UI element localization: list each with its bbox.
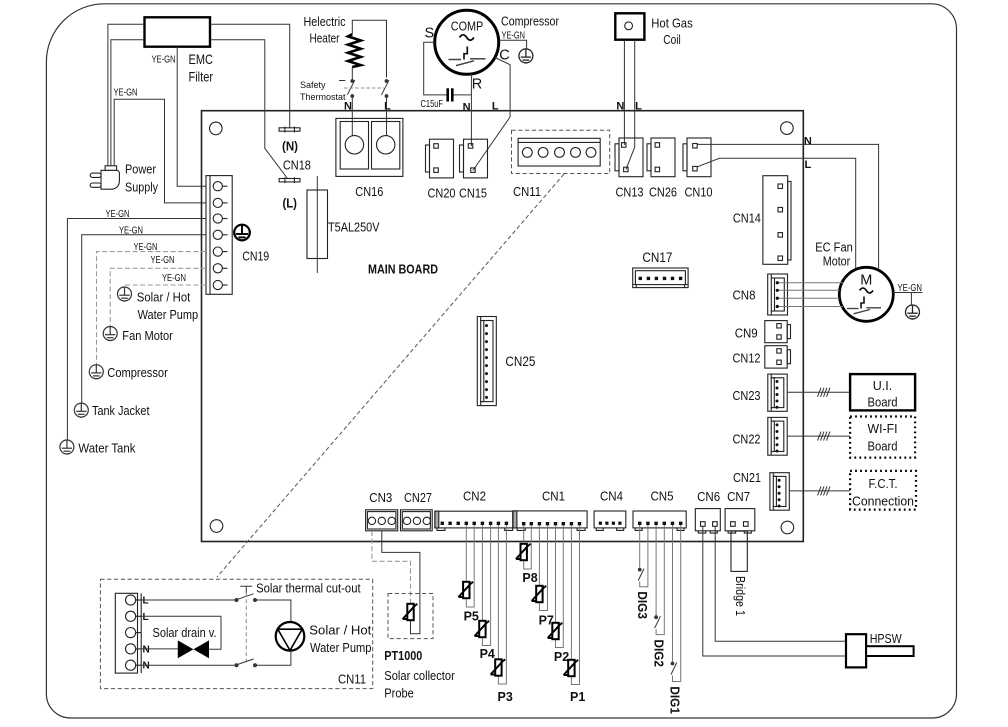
CN22 connector xyxy=(768,417,787,455)
CN9 connector xyxy=(765,321,791,343)
wire CN19 pin4 to Tank Jacket earth xyxy=(82,235,206,403)
thermistor probe P1 wires xyxy=(571,525,579,685)
heater element coil xyxy=(348,34,361,67)
svg-text:YE-GN: YE-GN xyxy=(502,30,526,41)
thermistor probe P2 wires xyxy=(556,525,564,648)
svg-text:Water Pump: Water Pump xyxy=(138,308,199,322)
CN19 connector xyxy=(206,176,232,295)
svg-text:YE-GN: YE-GN xyxy=(119,225,143,236)
solar pump circle xyxy=(276,622,305,651)
capacitor C15uF xyxy=(446,88,449,101)
svg-text:CN10: CN10 xyxy=(685,186,713,200)
mounting hole top-left xyxy=(210,122,223,135)
svg-text:Coil: Coil xyxy=(663,33,681,47)
svg-text:Solar / Hot: Solar / Hot xyxy=(309,624,372,638)
svg-text:CN20: CN20 xyxy=(428,187,456,201)
wire plug earth core to CN19 pin2 xyxy=(114,99,206,203)
svg-text:CN16: CN16 xyxy=(355,185,383,199)
svg-text:P8: P8 xyxy=(522,571,537,585)
svg-text:R: R xyxy=(472,76,482,92)
svg-text:EMC: EMC xyxy=(189,51,214,67)
svg-text:CN22: CN22 xyxy=(733,433,761,447)
svg-text:DIG1: DIG1 xyxy=(668,686,682,714)
svg-text:U.I.: U.I. xyxy=(873,379,892,393)
CN8 connector xyxy=(768,274,788,315)
Hot Gas Coil box xyxy=(615,13,644,39)
svg-text:S: S xyxy=(424,26,434,42)
DIG2 switch wires xyxy=(656,525,664,635)
thermistor P3 xyxy=(491,659,506,675)
solar box terminal connector xyxy=(115,593,141,673)
wire CN6 right pin to HPSW xyxy=(715,527,846,642)
wire CN19 pin5 to Compressor earth (dashed) xyxy=(97,252,207,365)
svg-text:CN17: CN17 xyxy=(642,250,672,265)
solar lower switch xyxy=(235,659,257,667)
wire lower switch to pump bottom xyxy=(257,651,291,666)
CN6 connector xyxy=(695,509,720,533)
CN14 connector xyxy=(763,176,791,265)
wire plug core 2 to EMC xyxy=(111,40,145,166)
thermistor P2 xyxy=(548,623,563,639)
wire hot gas L to CN13 xyxy=(626,40,635,170)
svg-text:Thermostat: Thermostat xyxy=(300,92,346,102)
wire C to CN15 pin L xyxy=(473,58,510,171)
svg-text:F.C.T.: F.C.T. xyxy=(869,477,898,491)
main board outline xyxy=(202,111,804,542)
svg-text:WI-FI: WI-FI xyxy=(868,422,898,436)
solar box dashed outline xyxy=(100,579,372,688)
svg-text:N: N xyxy=(143,644,150,655)
svg-text:CN18: CN18 xyxy=(283,159,311,173)
thermistor probe P3 wires xyxy=(498,525,506,684)
svg-text:YE-GN: YE-GN xyxy=(152,55,176,66)
wire solar pin1 to cutout switch xyxy=(141,599,235,601)
fuse T5AL250V xyxy=(316,176,318,273)
DIG2 switch xyxy=(655,616,661,628)
wire compressor body to earth xyxy=(499,40,527,49)
svg-text:CN25: CN25 xyxy=(505,354,535,369)
safety thermostat switch L xyxy=(382,80,390,98)
CN20 connector xyxy=(426,139,454,178)
svg-text:EC Fan: EC Fan xyxy=(815,241,853,255)
DIG1 switch xyxy=(671,662,677,674)
svg-text:N: N xyxy=(616,101,624,113)
svg-text:Board: Board xyxy=(868,440,898,454)
svg-text:Bridge 1: Bridge 1 xyxy=(733,576,747,616)
CN10 connector xyxy=(683,138,711,177)
DIG1 switch wires xyxy=(673,525,681,682)
wire heater top loop xyxy=(352,20,386,77)
svg-text:Heater: Heater xyxy=(310,32,340,46)
wire CN10 L to EC fan motor xyxy=(697,158,856,269)
svg-text:(L): (L) xyxy=(282,196,297,211)
wires CN8 to motor xyxy=(779,283,843,307)
svg-text:DIG3: DIG3 xyxy=(635,591,649,619)
compressor COMP circle xyxy=(435,10,499,74)
power supply plug xyxy=(90,166,119,189)
mounting hole top-right xyxy=(781,122,794,135)
earth Tank Jacket xyxy=(74,403,88,417)
CN17 connector xyxy=(633,268,688,288)
CN11 connector dashed box xyxy=(512,130,610,173)
wire EMC right to CN18 (N) xyxy=(210,24,290,128)
wire solar pin5 to lower switch xyxy=(141,664,235,666)
svg-text:N: N xyxy=(804,135,812,147)
svg-text:Probe: Probe xyxy=(384,687,414,701)
svg-text:T5AL250V: T5AL250V xyxy=(328,221,380,235)
svg-text:DIG2: DIG2 xyxy=(651,640,665,668)
svg-text:Tank Jacket: Tank Jacket xyxy=(92,404,150,418)
svg-text:CN6: CN6 xyxy=(697,490,720,504)
U.I. Board box xyxy=(850,374,915,410)
svg-text:PT1000: PT1000 xyxy=(384,649,422,663)
svg-text:YE-GN: YE-GN xyxy=(106,209,130,220)
wire CN6 left pin to HPSW xyxy=(703,527,846,657)
svg-text:Motor: Motor xyxy=(823,255,851,269)
overload protector glyph in COMP xyxy=(449,47,486,66)
overload protector glyph in motor xyxy=(847,297,881,314)
svg-text:C15uF: C15uF xyxy=(421,98,444,110)
tilde symbol in COMP xyxy=(460,35,474,40)
svg-text:P3: P3 xyxy=(498,690,513,704)
thermistor P7 xyxy=(532,586,547,602)
wire switch N to CN16 xyxy=(351,97,353,136)
svg-text:CN1: CN1 xyxy=(542,490,565,504)
wire plug core 1 to EMC xyxy=(108,24,145,166)
CN25 connector xyxy=(477,317,496,406)
svg-text:YE-GN: YE-GN xyxy=(134,242,158,253)
wire solar pin4 to drain valve xyxy=(141,648,178,650)
thermistor probe P8 wires xyxy=(524,525,532,569)
svg-text:CN27: CN27 xyxy=(404,491,432,505)
svg-text:N: N xyxy=(344,101,352,113)
svg-text:YE-GN: YE-GN xyxy=(162,273,186,284)
solar thermal cutout switch top xyxy=(235,594,257,602)
earth Water Tank xyxy=(60,440,74,454)
svg-text:CN8: CN8 xyxy=(733,289,756,303)
svg-text:CN3: CN3 xyxy=(369,491,392,505)
mounting hole bottom-left xyxy=(210,520,223,533)
svg-text:CN5: CN5 xyxy=(651,490,674,504)
svg-text:Filter: Filter xyxy=(189,69,214,85)
CN4 connector xyxy=(594,511,626,530)
CN1 connector xyxy=(513,511,587,531)
wire CN21 to FCT with hash xyxy=(789,490,850,492)
earth compressor body xyxy=(519,49,533,63)
svg-text:L: L xyxy=(635,101,642,113)
CN7 connector xyxy=(725,509,755,533)
solar pump triangle xyxy=(278,629,302,650)
svg-text:P5: P5 xyxy=(464,610,479,624)
wire heater bottom to left switch xyxy=(351,67,353,80)
svg-text:CN2: CN2 xyxy=(463,490,486,504)
thermistor P1 xyxy=(564,660,579,676)
CN23 connector xyxy=(768,374,787,411)
wire switch L to CN16 xyxy=(386,97,388,136)
wire CN10 N to EC fan motor xyxy=(697,144,878,268)
svg-text:Hot Gas: Hot Gas xyxy=(651,17,693,31)
F.C.T. Connection box dotted xyxy=(850,471,916,510)
svg-text:Water Pump: Water Pump xyxy=(310,641,372,655)
svg-text:CN9: CN9 xyxy=(735,326,758,340)
CN21 connector xyxy=(770,473,789,511)
wire hot gas N to CN13 xyxy=(623,40,625,145)
CN11 connector xyxy=(518,138,600,166)
svg-text:L: L xyxy=(384,101,391,113)
svg-text:Solar / Hot: Solar / Hot xyxy=(137,291,191,305)
svg-text:L: L xyxy=(143,596,149,607)
svg-text:YE-GN: YE-GN xyxy=(898,283,923,294)
svg-text:N: N xyxy=(463,102,471,114)
svg-text:P4: P4 xyxy=(480,647,495,661)
svg-text:COMP: COMP xyxy=(451,19,484,34)
PT1000 dashed box xyxy=(388,594,433,639)
svg-text:Compressor: Compressor xyxy=(107,366,168,380)
wire cutout to pump top xyxy=(257,600,291,622)
safety thermostat switch N xyxy=(339,80,355,98)
CN15 connector xyxy=(460,139,488,178)
CN18 terminal (L) xyxy=(279,177,300,183)
wire S to capacitor xyxy=(424,42,447,95)
svg-text:Power: Power xyxy=(125,163,156,177)
svg-text:HPSW: HPSW xyxy=(870,632,902,646)
wire CN19 pin3 to Water Tank earth xyxy=(67,219,206,441)
svg-text:L: L xyxy=(492,101,499,113)
wire CN19 pin6 to Fan Motor earth (dashed) xyxy=(110,268,206,326)
tilde symbol in motor xyxy=(860,288,873,293)
svg-text:MAIN BOARD: MAIN BOARD xyxy=(368,263,438,277)
protective earth symbol bold at CN19 xyxy=(234,225,250,241)
thermistor probe P7 wires xyxy=(539,525,547,611)
svg-text:CN26: CN26 xyxy=(649,186,677,200)
solar drain valve xyxy=(178,640,209,658)
earth Fan Motor xyxy=(103,327,117,341)
cutout mechanical dashed link xyxy=(245,593,247,661)
thermostat mechanical link dashed xyxy=(344,87,384,89)
svg-text:CN14: CN14 xyxy=(733,212,761,226)
thermistor P4 xyxy=(475,621,490,637)
thermistor P8 xyxy=(516,544,531,560)
mounting hole bottom-right xyxy=(781,521,794,534)
wire CN3 pin1 to PT1000 dashed xyxy=(372,531,411,603)
svg-text:L: L xyxy=(805,159,812,171)
svg-text:CN13: CN13 xyxy=(616,186,644,200)
svg-text:Board: Board xyxy=(868,396,898,410)
CN16 terminal block xyxy=(336,118,403,176)
svg-text:CN4: CN4 xyxy=(600,490,623,504)
svg-text:CN19: CN19 xyxy=(242,250,269,264)
svg-text:Solar drain v.: Solar drain v. xyxy=(153,626,217,640)
svg-text:Fan Motor: Fan Motor xyxy=(122,329,173,343)
svg-text:YE-GN: YE-GN xyxy=(114,87,138,98)
thermistor probe P4 wires xyxy=(482,525,490,646)
dashed diagonal link CN11 to solar box xyxy=(217,174,564,577)
wire EMC bottom to CN19 pin1 xyxy=(177,47,206,187)
earth Compressor xyxy=(89,365,103,379)
wire CN23 to UI board with hash xyxy=(787,391,850,393)
svg-text:CN11: CN11 xyxy=(513,185,541,199)
DIG3 switch xyxy=(638,568,644,580)
CN3 connector xyxy=(366,510,398,531)
svg-text:Helectric: Helectric xyxy=(304,15,346,29)
svg-text:Compressor: Compressor xyxy=(501,15,559,29)
svg-text:Water Tank: Water Tank xyxy=(78,442,136,456)
EC fan motor circle xyxy=(839,267,893,321)
CN18 terminal (N) xyxy=(279,127,300,133)
CN13 connector xyxy=(615,138,643,177)
CN5 connector xyxy=(633,511,686,530)
svg-text:L: L xyxy=(143,612,149,623)
svg-text:Solar thermal cut-out: Solar thermal cut-out xyxy=(256,582,361,596)
WI-FI Board box dotted xyxy=(850,417,915,458)
hot gas coil terminal circle xyxy=(625,22,633,30)
wire CN22 to WI-FI board with hash xyxy=(787,435,850,437)
svg-text:CN23: CN23 xyxy=(733,389,761,403)
wire drain valve to pin2 L xyxy=(141,616,221,649)
svg-text:CN15: CN15 xyxy=(459,187,487,201)
svg-text:N: N xyxy=(143,661,150,672)
CN12 connector xyxy=(765,346,791,368)
CN2 connector xyxy=(435,511,513,530)
wire R to CN15 pin N xyxy=(470,74,472,146)
svg-text:Connection: Connection xyxy=(852,495,914,509)
wire CN3 pin2 to PT1000 xyxy=(382,531,420,634)
svg-text:(N): (N) xyxy=(282,139,298,154)
svg-text:Safety: Safety xyxy=(300,80,326,90)
earth EC fan motor xyxy=(906,305,920,319)
thermistor P5 xyxy=(459,582,474,598)
EMC Filter box xyxy=(145,17,211,46)
thermistor probe P5 wires xyxy=(466,525,474,607)
svg-text:CN12: CN12 xyxy=(733,352,761,366)
wire capacitor to R node xyxy=(454,94,472,96)
wire EMC right to CN18 (L) xyxy=(210,40,288,179)
wire CN19 pin7 to Solar/Hot Water Pump earth (dashed) xyxy=(125,285,207,287)
svg-text:CN11: CN11 xyxy=(338,673,366,687)
CN27 connector xyxy=(401,510,433,531)
wire motor to earth YE-GN xyxy=(893,293,922,306)
thermistor PT1000 xyxy=(403,604,418,620)
svg-text:YE-GN: YE-GN xyxy=(151,255,175,266)
HPSW stem xyxy=(866,646,914,656)
bridge 1 loop at CN7 xyxy=(731,531,747,571)
svg-text:CN21: CN21 xyxy=(733,471,761,485)
svg-text:P1: P1 xyxy=(570,690,585,704)
HPSW body xyxy=(846,634,866,667)
thermal cutout actuator symbol xyxy=(240,586,252,593)
earth Solar/Hot Water Pump xyxy=(118,287,132,301)
svg-text:Solar collector: Solar collector xyxy=(384,669,455,683)
DIG3 switch wires xyxy=(640,525,648,587)
CN26 connector xyxy=(647,138,675,177)
svg-text:C: C xyxy=(499,48,509,64)
svg-text:CN7: CN7 xyxy=(727,490,750,504)
svg-text:M: M xyxy=(860,273,872,289)
svg-text:Supply: Supply xyxy=(125,181,159,195)
svg-text:P2: P2 xyxy=(554,650,569,664)
